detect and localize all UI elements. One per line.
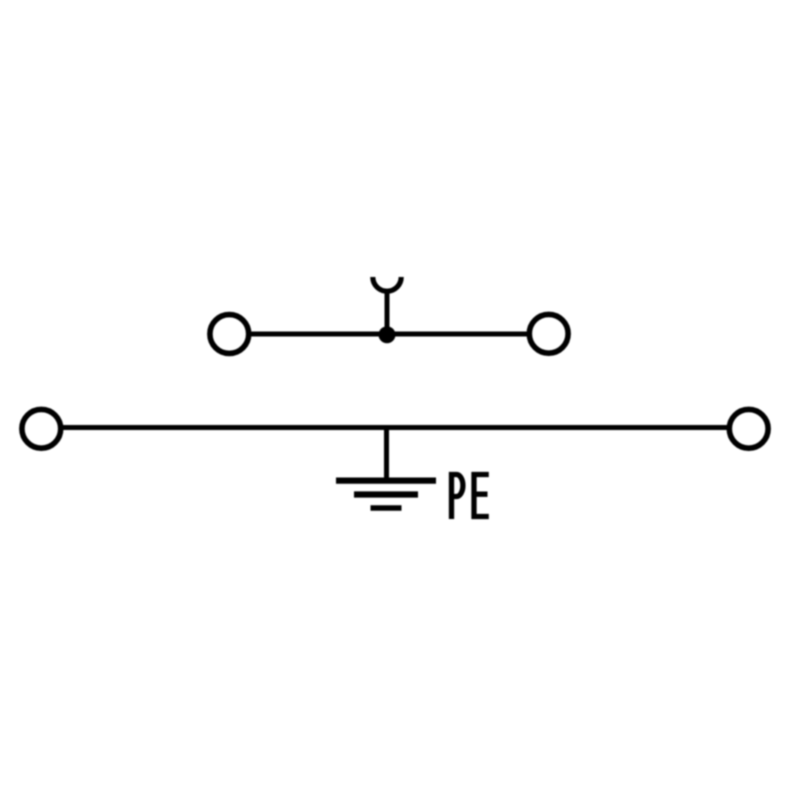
socket (plug-in connection) symbol arc (373, 277, 401, 291)
ground earth symbol bar 1 (336, 477, 436, 483)
node junction dot upper bus (379, 326, 396, 343)
terminal X1 upper level left circle (210, 315, 249, 354)
terminal X2 upper level right circle (529, 314, 568, 353)
ground earth symbol bar 2 (354, 491, 418, 497)
wire ground stem (384, 428, 389, 479)
label PE letter P (452, 475, 463, 520)
terminal X3 lower PE level left circle (22, 409, 61, 448)
label PE letter E (472, 472, 489, 519)
wire upper level bus (251, 332, 528, 337)
terminal X4 lower PE level right circle (729, 409, 768, 448)
wire tap stem to socket symbol (385, 290, 390, 335)
wire lower PE bus (63, 425, 727, 430)
ground earth symbol bar 3 (371, 505, 402, 511)
